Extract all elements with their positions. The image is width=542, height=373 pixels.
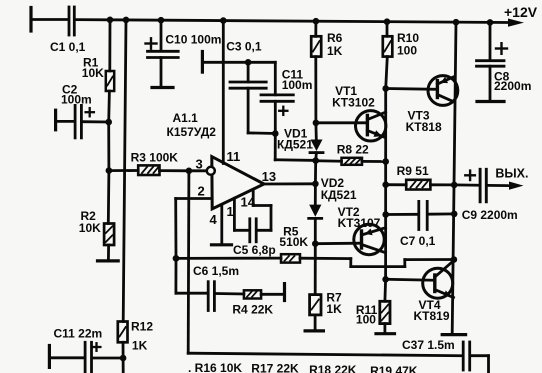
node rail-R1	[107, 17, 114, 24]
ground bar R2	[98, 259, 119, 262]
node VT1 base branch	[313, 120, 320, 127]
svg-text:1K: 1K	[327, 44, 343, 58]
wire R8 left lead	[316, 159, 342, 162]
wire R3 node to R2	[107, 171, 110, 224]
wire rail to R1	[108, 20, 111, 71]
svg-text:4: 4	[210, 212, 218, 227]
node VD1 cathode / R8	[312, 157, 319, 164]
node feedback-output	[451, 256, 458, 263]
wire to VD1 cathode node	[275, 158, 316, 161]
svg-text:C10 100m: C10 100m	[165, 32, 221, 46]
emitter bar VT4	[442, 333, 465, 336]
svg-text:C9 2200m: C9 2200m	[462, 208, 518, 222]
wire R6 to VT1 base node	[314, 57, 317, 123]
node rail-pin11	[220, 17, 227, 24]
capacitor C6	[208, 282, 214, 311]
capacitor C1	[69, 7, 74, 35]
wire bottom rail	[188, 353, 462, 356]
inverting input bubble	[207, 167, 215, 175]
wire R9 right lead	[430, 183, 454, 186]
node C11-R12	[120, 355, 127, 362]
svg-text:R8 22: R8 22	[337, 142, 369, 156]
svg-text:C1 0,1: C1 0,1	[50, 40, 86, 54]
node rail-C10	[158, 17, 165, 24]
terminal stub after R4	[283, 284, 286, 301]
op-amp A1.1 triangle	[212, 157, 264, 209]
wire C7 right lead	[429, 212, 455, 215]
capacitor C5	[250, 219, 256, 242]
node rail-R12	[123, 17, 130, 24]
diode VD1	[310, 123, 323, 161]
wire R12 to C11 node	[122, 342, 125, 358]
wire jog down	[349, 259, 352, 267]
wire R6 top lead	[314, 21, 317, 36]
capacitor C9	[454, 169, 509, 202]
resistor R3	[138, 165, 159, 175]
node output-C9	[451, 182, 458, 189]
svg-text:R3 100K: R3 100K	[131, 151, 179, 165]
resistor R8	[342, 158, 363, 165]
wire pin 2	[176, 197, 212, 200]
resistor R12	[118, 322, 128, 343]
svg-text:R17 22K: R17 22K	[251, 362, 299, 373]
transistor VT3	[386, 76, 458, 106]
svg-text:A1.1: A1.1	[173, 111, 199, 125]
svg-text:KT818: KT818	[406, 120, 442, 134]
wire below node (cropped)	[122, 358, 125, 373]
svg-text:C3 0,1: C3 0,1	[226, 40, 262, 54]
svg-text:C37 1.5m: C37 1.5m	[402, 338, 455, 352]
node pin3-feedback	[186, 168, 193, 175]
svg-text:KT819: KT819	[414, 309, 450, 323]
transistor VT1	[316, 111, 386, 141]
svg-text:R18 22K: R18 22K	[309, 363, 357, 373]
wire R8 right lead	[362, 160, 386, 163]
resistor R11	[380, 301, 390, 323]
node VT2 base branch	[312, 240, 319, 247]
resistor R9	[406, 180, 430, 190]
wire R5 left lead	[176, 257, 281, 260]
svg-text:R9 51: R9 51	[397, 164, 429, 178]
svg-text:C7 0,1: C7 0,1	[400, 234, 436, 248]
wire top supply rail	[76, 20, 509, 23]
output arrow	[509, 182, 524, 190]
wire pin1 to C5	[234, 229, 248, 232]
wire C3 node to C11 corner	[248, 61, 275, 64]
node R3	[106, 167, 113, 174]
resistor R10	[383, 36, 393, 56]
svg-text:+12V: +12V	[504, 4, 538, 20]
capacitor C11 22m	[49, 342, 123, 373]
resistor R2	[104, 224, 114, 246]
input terminal stub	[29, 8, 32, 32]
wire collector line VT1	[384, 89, 387, 280]
wire R4 to terminal	[261, 293, 283, 296]
svg-text:510K: 510K	[279, 235, 308, 249]
svg-text:1K: 1K	[132, 338, 148, 352]
node rail-C8	[487, 19, 494, 26]
svg-text:2200m: 2200m	[494, 79, 531, 93]
capacitor C10	[146, 20, 179, 87]
wire C2 node to R3 node	[107, 122, 110, 171]
node C3	[245, 59, 252, 66]
svg-text:3: 3	[196, 156, 203, 171]
ground bar R7	[305, 329, 323, 332]
wire R9 left lead	[386, 183, 407, 186]
svg-text:R12: R12	[131, 320, 153, 334]
resistor R1	[106, 71, 114, 91]
svg-text:R4 22K: R4 22K	[232, 302, 273, 316]
wire pin2 line to C6 corner	[174, 258, 177, 293]
node rail-VT3	[453, 19, 460, 26]
wire C6 to R4	[216, 292, 244, 295]
wire R5 to jog	[300, 257, 351, 260]
resistor R4	[244, 290, 261, 298]
svg-text:КД521: КД521	[321, 188, 357, 202]
node rail-R10	[384, 18, 391, 25]
node R8-emitter line	[382, 158, 389, 165]
svg-text:C5 6,8p: C5 6,8p	[233, 243, 276, 257]
svg-text:10K: 10K	[82, 66, 104, 80]
wire stub C3	[201, 52, 204, 73]
wire pin 14 route	[253, 190, 271, 231]
ground bar pin 4	[212, 243, 232, 246]
transistor VT4	[386, 261, 454, 299]
capacitor C8	[477, 22, 508, 101]
capacitor C37	[463, 342, 488, 373]
wire R11 to ground	[383, 324, 386, 332]
capacitor C3	[230, 62, 275, 133]
svg-text:100: 100	[397, 44, 417, 58]
svg-text:100m: 100m	[61, 92, 92, 106]
wire R10 top lead	[386, 22, 389, 37]
diode VD2	[309, 184, 322, 244]
wire C3C11 node down	[274, 134, 277, 160]
svg-text:. R16 10K: . R16 10K	[188, 361, 242, 373]
svg-text:К157УД2: К157УД2	[167, 125, 217, 139]
svg-text:C6 1,5m: C6 1,5m	[193, 264, 239, 278]
wire R3 left lead	[109, 169, 138, 172]
node op-amp output	[312, 181, 319, 188]
capacitor C11 100m	[261, 62, 293, 133]
wire feedback line pin3 down	[187, 171, 190, 353]
node C3-C11 bottom	[272, 130, 279, 137]
transistor VT2	[315, 224, 385, 254]
node rail-R6	[313, 18, 320, 25]
capacitor C7	[419, 201, 427, 229]
wire VT2 base node down to R7	[314, 244, 317, 295]
wire jog up	[403, 260, 406, 267]
wire to R11	[383, 279, 387, 301]
node VT3 base branch	[382, 85, 389, 92]
wire pin 4 down	[220, 205, 223, 244]
ground bar R11	[376, 332, 395, 335]
svg-text:1K: 1K	[326, 302, 342, 316]
wire C7 left lead	[386, 213, 418, 216]
wire op-amp output	[264, 182, 315, 185]
svg-text:КД521: КД521	[277, 138, 313, 152]
capacitor C2	[56, 105, 109, 137]
wire pin 11 to rail	[222, 21, 225, 164]
resistor R6	[311, 36, 321, 56]
resistor R5	[281, 254, 300, 262]
node C7 right	[451, 211, 458, 218]
wire pin 1 down	[233, 198, 236, 230]
wire stub to C3 node	[202, 61, 248, 64]
wire R1 to C2 node	[107, 91, 111, 122]
wire output line VT3-VT4	[452, 22, 456, 333]
ground bar C10	[152, 86, 173, 89]
wire R12 line from rail	[123, 20, 126, 322]
wire pin2 line down	[174, 199, 177, 259]
node R9 left	[382, 181, 389, 188]
node C2	[105, 119, 112, 126]
wire input to C1	[31, 18, 68, 21]
wire jog to output line	[405, 258, 454, 261]
svg-text:R19 47K: R19 47K	[370, 364, 418, 373]
wire VD1 node down to output node	[314, 161, 317, 184]
svg-text:100: 100	[356, 313, 376, 327]
svg-text:ВЫХ.: ВЫХ.	[495, 167, 528, 181]
svg-text:2: 2	[198, 184, 205, 199]
node C7 left	[382, 211, 389, 218]
node R5 branch	[173, 255, 180, 262]
resistor R7	[310, 295, 321, 315]
svg-text:10K: 10K	[79, 221, 101, 235]
wire corner to C6	[176, 292, 207, 295]
svg-text:C11 22m: C11 22m	[54, 326, 103, 340]
wire R2 to ground	[107, 245, 110, 261]
svg-text:11: 11	[227, 149, 241, 164]
svg-text:KT3102: KT3102	[332, 96, 375, 110]
svg-text:KT3107: KT3107	[338, 216, 381, 230]
+12V arrow	[508, 19, 524, 27]
wire R10 to VT3 base node	[386, 57, 388, 89]
node VT4 base branch	[382, 276, 389, 283]
svg-text:1: 1	[227, 204, 234, 219]
wire jog across	[351, 265, 405, 268]
wire R7 to ground	[314, 315, 317, 329]
svg-text:13: 13	[262, 169, 276, 184]
wire to inverting input bubble	[189, 169, 207, 172]
svg-text:100m: 100m	[282, 78, 313, 92]
ground bar C8	[477, 100, 504, 103]
wire R3 to pin3 node	[160, 169, 189, 172]
